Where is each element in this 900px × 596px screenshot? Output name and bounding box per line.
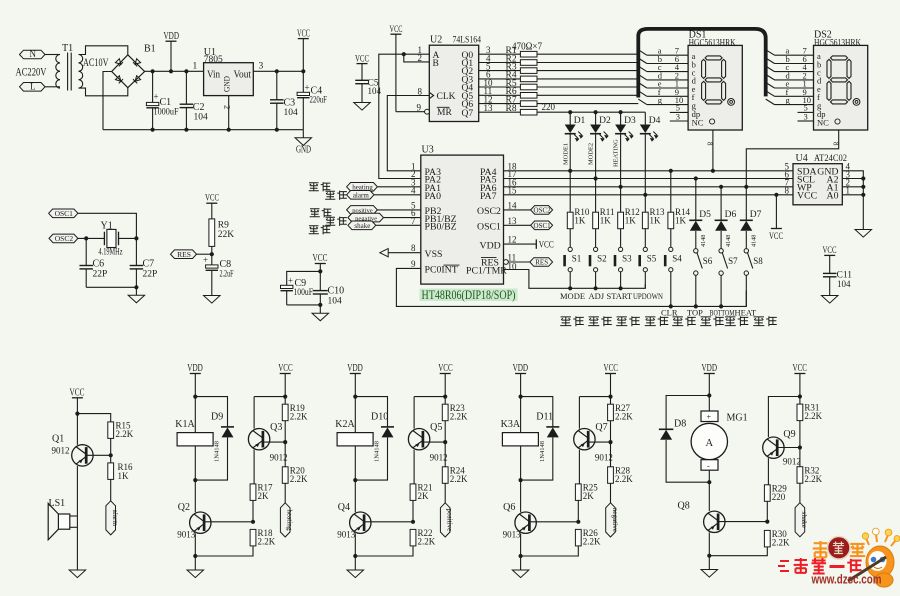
- DS2 segment wire f: [766, 91, 775, 97]
- resistor R18 2.2K: [250, 529, 256, 546]
- svg-text:2.2K: 2.2K: [450, 474, 468, 484]
- svg-text:1K: 1K: [574, 216, 586, 226]
- switch S7: [719, 249, 723, 253]
- wire VCC rail to Q5: [414, 396, 445, 398]
- svg-text:VCC: VCC: [438, 363, 453, 374]
- node dot VCC Q9: [798, 394, 802, 398]
- wire R6 to DS1 bus: [537, 94, 638, 96]
- svg-text:negative: negative: [611, 508, 619, 532]
- wire RES pin to tag: [508, 261, 530, 263]
- svg-text:2.2K: 2.2K: [450, 412, 468, 422]
- transistor Q2 9013: [194, 480, 196, 512]
- svg-text:1K: 1K: [675, 216, 687, 226]
- svg-text:1N4148: 1N4148: [214, 441, 221, 462]
- svg-text:4148: 4148: [700, 235, 707, 247]
- wire bottom rail K3A: [521, 546, 579, 556]
- wire VDD to D10: [355, 397, 387, 427]
- ground symbol K3A: [512, 570, 529, 578]
- ground symbol crystal: [135, 287, 137, 295]
- net tag OSC2 (crystal): [49, 234, 78, 243]
- svg-text:+: +: [154, 92, 159, 102]
- transistor Q6 9013: [520, 480, 522, 512]
- svg-text:VDD: VDD: [164, 31, 180, 42]
- ground symbol Q1: [69, 570, 86, 578]
- node dot R12 top: [619, 185, 623, 189]
- node dot rail C2: [184, 128, 188, 132]
- svg-text:OSC2: OSC2: [477, 206, 501, 217]
- node dot VCC Q5: [443, 395, 447, 399]
- svg-text:2.2K: 2.2K: [583, 537, 601, 547]
- svg-text:S3: S3: [622, 254, 632, 264]
- svg-text:1: 1: [193, 62, 198, 72]
- LED D4: [644, 112, 646, 124]
- capacitor C9 100uF: [281, 285, 293, 288]
- key rail2 node dots: [669, 304, 673, 308]
- svg-text:Q7: Q7: [595, 422, 607, 433]
- resistor R29 220: [767, 458, 769, 485]
- diode D10 1N4148: [381, 426, 394, 428]
- svg-text:HGC5613HRK: HGC5613HRK: [814, 38, 861, 48]
- svg-text:2.2K: 2.2K: [772, 538, 790, 548]
- svg-text:220: 220: [772, 492, 786, 502]
- svg-text:100uF: 100uF: [294, 288, 314, 298]
- svg-text:3: 3: [804, 111, 808, 121]
- node dot motor bottom: [707, 480, 711, 484]
- svg-text:MODE1: MODE1: [563, 143, 570, 165]
- node dot relay bottom K3A: [519, 478, 523, 482]
- DS2 segment wire d: [766, 74, 775, 80]
- svg-text:VCC: VCC: [539, 241, 554, 251]
- svg-text:VCC: VCC: [70, 388, 85, 399]
- svg-text:104: 104: [328, 297, 343, 307]
- svg-text:BOTTOM: BOTTOM: [710, 308, 735, 318]
- wire DC rail bridge to U1: [145, 70, 204, 72]
- node dot Q8 emitter rail: [707, 554, 711, 558]
- resistor R24 2.2K: [444, 442, 446, 467]
- resistor R2: [520, 60, 537, 66]
- resistor R4: [520, 76, 537, 82]
- ground symbol below C5: [354, 103, 371, 111]
- svg-text:CLK: CLK: [437, 92, 456, 102]
- node dot D5 top: [694, 176, 698, 180]
- svg-text:S6: S6: [703, 256, 713, 266]
- node dot crystal gnd: [134, 285, 138, 289]
- node dot A0: [861, 193, 865, 197]
- motor MG1 terminal +: [701, 411, 718, 422]
- transformer T1 core: [67, 53, 69, 91]
- svg-text:MR: MR: [437, 108, 452, 118]
- node dot VDD K2A: [353, 395, 357, 399]
- svg-text:9013: 9013: [177, 530, 196, 540]
- wire OSC1 pin to tag: [504, 224, 531, 226]
- wire VCC to MR pin 9: [396, 111, 426, 113]
- node dot Q2 base: [251, 520, 255, 524]
- wire C9/C10 bottom: [287, 304, 321, 306]
- wire VDD pin to VCC: [504, 243, 537, 245]
- svg-text:S5: S5: [647, 254, 657, 264]
- svg-text:8: 8: [785, 186, 790, 196]
- node dot R10 top: [568, 169, 572, 173]
- svg-text:9012: 9012: [52, 446, 70, 456]
- diode D7 1N4148: [745, 187, 747, 221]
- svg-text:S8: S8: [753, 256, 763, 266]
- bridge diode top-right: [133, 59, 141, 67]
- svg-text:Vin: Vin: [207, 70, 220, 81]
- wire OSC2 pin to tag: [504, 209, 531, 211]
- svg-text:AC220V: AC220V: [16, 67, 48, 79]
- wire Q4 to R5: [479, 86, 521, 88]
- node dot relay bottom K2A: [353, 478, 357, 482]
- wire VCC rail to Q3: [254, 396, 285, 398]
- transistor Q8: [704, 511, 725, 532]
- svg-text:2.2K: 2.2K: [258, 537, 276, 547]
- svg-text:RES: RES: [535, 259, 548, 267]
- node dot Q1 VCC: [75, 412, 79, 416]
- svg-text:OSC1: OSC1: [534, 222, 552, 230]
- svg-text:2.2K: 2.2K: [418, 537, 436, 547]
- svg-text:+: +: [288, 276, 293, 286]
- watermark text zhao-xin-pian (orange): [813, 541, 829, 558]
- svg-text:1K: 1K: [600, 216, 612, 226]
- resistor R10 1K: [569, 171, 571, 212]
- resistor R6: [520, 93, 537, 99]
- DS2 segment wire b: [766, 58, 775, 64]
- svg-text:HT48R06(DIP18/SOP): HT48R06(DIP18/SOP): [422, 288, 516, 302]
- svg-text:VCC: VCC: [823, 246, 837, 256]
- svg-text:R8: R8: [506, 104, 517, 114]
- resistor R8: [520, 109, 537, 115]
- transistor Q7 9012: [578, 397, 580, 429]
- svg-text:C6: C6: [93, 259, 105, 270]
- ground rail bottom: [103, 129, 303, 131]
- svg-text:D8: D8: [674, 419, 686, 430]
- svg-text:VCC: VCC: [205, 194, 219, 204]
- svg-text:AC10V: AC10V: [83, 57, 109, 69]
- eeprom U4 AT24C02: [793, 164, 842, 205]
- svg-text:VSS: VSS: [425, 249, 443, 260]
- resistor R3: [520, 68, 537, 74]
- wire Q9 base: [777, 447, 800, 449]
- switch S5 pushbutton: [643, 247, 647, 251]
- net tag positive: [347, 206, 378, 215]
- resistor R19 2.2K: [284, 397, 286, 405]
- wire Q5 base: [423, 441, 445, 443]
- net tag RES (U3): [530, 258, 553, 267]
- DS2 dp stub pin 5: [798, 111, 814, 113]
- svg-text:positive: positive: [446, 509, 454, 532]
- capacitor C6 22P: [85, 238, 87, 265]
- svg-text:Q8: Q8: [678, 501, 690, 512]
- DS1 common cathode wire to PA4 row: [712, 130, 714, 171]
- node dot emitter rail K2A: [353, 554, 357, 558]
- svg-text:Q4: Q4: [338, 502, 350, 513]
- svg-text:LS1: LS1: [49, 498, 66, 509]
- wire VDD to D11: [521, 397, 553, 427]
- svg-text:A: A: [706, 438, 714, 449]
- net tag positive (vertical): [440, 503, 450, 537]
- svg-text:PB0/BZ: PB0/BZ: [425, 222, 457, 233]
- wire U2 CLK to PA3: [387, 96, 429, 171]
- net tag alarm: [347, 191, 374, 200]
- display bus (thick) DS1-DS2: [638, 29, 765, 98]
- net tag heating: [347, 183, 378, 192]
- svg-text:ADJ: ADJ: [589, 291, 605, 301]
- svg-text:D6: D6: [725, 210, 737, 220]
- resistor R7: [520, 101, 537, 107]
- svg-text:OSC2: OSC2: [534, 207, 552, 215]
- resistor R25 2K: [575, 484, 581, 501]
- label shake (Chinese): [309, 226, 319, 234]
- svg-text:U2: U2: [430, 35, 442, 46]
- shift register U2 74LS164: [429, 45, 478, 121]
- wire Q6 base: [529, 521, 578, 523]
- wire R7 to DS1 bus: [537, 103, 638, 105]
- svg-text:Q7: Q7: [462, 109, 474, 119]
- wire Q3 to R4: [479, 78, 521, 80]
- resistor R15 2.2K: [108, 422, 114, 439]
- resistor R22 2.2K: [410, 529, 416, 546]
- svg-text:2K: 2K: [418, 491, 430, 501]
- wire Q2 base: [204, 521, 253, 523]
- transformer T1 secondary winding: [79, 55, 83, 89]
- svg-text:MODE: MODE: [560, 291, 585, 301]
- wire positive tag to PB2: [377, 209, 420, 211]
- power symbol VCC (U4): [771, 228, 782, 230]
- svg-text:8: 8: [411, 243, 416, 253]
- ground symbol K2A: [347, 570, 364, 578]
- svg-text:MG1: MG1: [727, 413, 748, 424]
- capacitor C2 104: [185, 71, 187, 104]
- svg-text:22K: 22K: [218, 230, 235, 240]
- resistor R31 2.2K: [797, 404, 803, 421]
- svg-text:220uF: 220uF: [310, 96, 328, 106]
- svg-text:2.2K: 2.2K: [804, 474, 822, 484]
- wire VDD to D8: [666, 396, 709, 430]
- svg-text:B1: B1: [144, 44, 156, 55]
- svg-text:13: 13: [484, 103, 494, 113]
- wire PA6 row to U4 WP: [504, 186, 794, 188]
- svg-text:104: 104: [837, 279, 851, 289]
- label alarm (Chinese): [325, 191, 335, 199]
- svg-text:K1A: K1A: [175, 419, 195, 430]
- svg-text:C1: C1: [160, 97, 172, 108]
- svg-text:OSC1: OSC1: [477, 222, 501, 233]
- svg-text:N: N: [30, 49, 37, 59]
- wire negative tag to PB1: [384, 217, 421, 219]
- svg-text:Q9: Q9: [783, 429, 795, 440]
- svg-text:2: 2: [223, 105, 233, 109]
- node dot C1 top: [151, 69, 155, 73]
- svg-text:VCC: VCC: [297, 29, 310, 40]
- bridge diode bottom-left: [115, 76, 123, 84]
- svg-text:8: 8: [418, 86, 423, 96]
- resistor R11 1K: [595, 179, 597, 213]
- wire Q1 base: [86, 454, 111, 456]
- svg-text:+: +: [203, 255, 208, 265]
- svg-text:1N4148: 1N4148: [539, 441, 546, 462]
- diode D9 1N4148: [221, 426, 234, 428]
- svg-text:2: 2: [418, 53, 423, 63]
- net tag OSC2 (U3): [531, 206, 553, 215]
- svg-text:shake: shake: [800, 512, 808, 528]
- svg-text:3: 3: [676, 111, 680, 121]
- node dot Q4 base: [411, 520, 415, 524]
- svg-text:8: 8: [832, 142, 840, 146]
- wire R4 to DS1 bus: [537, 78, 638, 80]
- svg-text:1000uF: 1000uF: [154, 108, 179, 118]
- resistor R21 2K: [410, 484, 416, 501]
- switch S2 pushbutton: [594, 247, 598, 251]
- wire RES tag to R9/C8: [197, 253, 212, 255]
- net tag alarm (vertical): [106, 501, 116, 535]
- svg-text:470Ω×7: 470Ω×7: [512, 42, 542, 53]
- capacitor C4 220uF: [302, 71, 304, 92]
- switch S3 pushbutton: [619, 247, 623, 251]
- node dot A1: [861, 185, 865, 189]
- capacitor C8 2.2uF: [211, 254, 213, 265]
- node dot Q3 base: [283, 440, 287, 444]
- svg-text:RES: RES: [481, 258, 499, 269]
- transistor Q9 9012: [768, 397, 800, 438]
- svg-text:PA7: PA7: [480, 191, 497, 202]
- DS1 segment wire a: [638, 50, 647, 56]
- svg-text:A0: A0: [827, 191, 839, 202]
- diode D11 1N4148: [546, 426, 559, 428]
- wire PA4 row to U4 SDA: [504, 170, 794, 172]
- label Chinese key captions: [560, 317, 571, 326]
- wire Q6 to R7: [479, 103, 521, 105]
- node dot Q8 base: [765, 520, 769, 524]
- label heating (Chinese): [309, 183, 319, 191]
- wire Q3 base: [263, 441, 285, 443]
- connector L (AC input live): [20, 83, 46, 92]
- wire motor to Q8: [708, 470, 710, 511]
- svg-text:START: START: [607, 291, 634, 301]
- node dot emitter rail K3A: [519, 554, 523, 558]
- LED D1: [569, 112, 571, 124]
- node dot D2 anode: [594, 110, 598, 114]
- node dot RES junction: [210, 252, 214, 256]
- display DS2 box: [814, 45, 868, 130]
- wire U1 Vout to VCC: [253, 70, 303, 72]
- wire N to transformer: [45, 54, 60, 56]
- bridge diode top-left: [115, 59, 123, 67]
- wire Q8 base: [718, 521, 767, 523]
- node dot A2: [861, 176, 865, 180]
- node dot C9/C10 top: [318, 269, 322, 273]
- svg-text:CLR: CLR: [661, 308, 678, 318]
- node dot rail U1 GND: [227, 128, 231, 132]
- svg-text:2.2uF: 2.2uF: [220, 270, 234, 280]
- svg-text:D11: D11: [536, 412, 553, 423]
- svg-text:AT24C02: AT24C02: [814, 154, 847, 164]
- svg-text:S7: S7: [728, 256, 738, 266]
- svg-text:2K: 2K: [583, 491, 595, 501]
- node dot VCC column: [301, 69, 305, 73]
- transistor Q3 9012: [253, 397, 255, 429]
- svg-text:C10: C10: [328, 286, 345, 297]
- transistor Q5 9012: [413, 397, 415, 429]
- svg-text:2.2K: 2.2K: [116, 429, 134, 439]
- svg-text:MODE2: MODE2: [588, 143, 595, 165]
- watermark weiku-yixia (red): [778, 561, 789, 571]
- svg-text:VCC: VCC: [390, 25, 403, 35]
- svg-text:U3: U3: [422, 145, 434, 156]
- wire U1 GND pin to rail: [228, 96, 230, 130]
- VSS arrow symbol: [380, 249, 388, 257]
- connector N (AC input neutral): [20, 50, 46, 59]
- svg-text:OSC1: OSC1: [55, 209, 74, 218]
- svg-text:4.19MHz: 4.19MHz: [99, 248, 123, 258]
- DS1 NC stub pin 3: [670, 120, 688, 122]
- svg-text:1K: 1K: [650, 216, 662, 226]
- svg-text:4148: 4148: [750, 235, 757, 247]
- label positive (Chinese): [310, 209, 320, 217]
- svg-text:VCC: VCC: [793, 363, 808, 374]
- svg-text:+: +: [305, 83, 310, 93]
- wire VCC to R15: [77, 414, 110, 422]
- svg-text:OSC2: OSC2: [55, 234, 74, 243]
- svg-text:C7: C7: [143, 259, 155, 270]
- net tag shake (vertical): [795, 503, 805, 537]
- svg-text:14: 14: [508, 200, 518, 210]
- svg-text:104: 104: [194, 113, 209, 123]
- resistor R32 2.2K: [799, 448, 801, 467]
- svg-text:alarm: alarm: [111, 510, 119, 527]
- watermark mascot: [848, 528, 900, 587]
- wire A to B jumper: [404, 54, 430, 62]
- wire R1 to DS1 bus: [537, 53, 638, 55]
- net tag shake: [348, 221, 376, 230]
- svg-text:VCC: VCC: [313, 253, 328, 264]
- node dot R13 top: [643, 193, 647, 197]
- node dot Q7 base: [608, 440, 612, 444]
- node dot DS1 common: [711, 169, 715, 173]
- svg-text:S4: S4: [672, 254, 682, 264]
- wire secondary top to bridge: [79, 46, 128, 55]
- svg-text:Q3: Q3: [270, 422, 282, 433]
- svg-text:HEATING: HEATING: [613, 139, 620, 167]
- svg-text:T1: T1: [62, 43, 73, 54]
- node dot relay bottom K1A: [193, 478, 197, 482]
- svg-text:+: +: [707, 413, 712, 422]
- wire PC1/TMR to key rail1: [504, 270, 646, 289]
- svg-text:alarm: alarm: [353, 192, 369, 200]
- wire shake tag to PB0: [376, 224, 421, 226]
- DS1 dp stub pin 5: [670, 111, 688, 113]
- resistor R27 2.2K: [610, 397, 612, 405]
- capacitor C11 104: [823, 272, 837, 274]
- wire OSC2 to crystal left node: [78, 237, 105, 239]
- node dot VDD MG1: [707, 393, 711, 397]
- svg-text:GND: GND: [222, 76, 232, 92]
- LED D2: [595, 112, 597, 124]
- label negative (Chinese): [325, 217, 335, 225]
- svg-text:2.2K: 2.2K: [290, 474, 308, 484]
- svg-text:VDD: VDD: [513, 363, 529, 374]
- svg-text:22P: 22P: [93, 270, 108, 280]
- DS2 NC stub pin 3: [798, 120, 814, 122]
- svg-text:UPDOWN: UPDOWN: [633, 291, 663, 301]
- svg-text:Vout: Vout: [234, 70, 252, 81]
- wire L to transformer: [45, 86, 60, 88]
- svg-text:C2: C2: [193, 102, 205, 113]
- node dot Q1 base junction: [109, 453, 113, 457]
- node dot crystal right: [134, 236, 138, 240]
- svg-text:VCC: VCC: [604, 363, 619, 374]
- svg-text:4148: 4148: [725, 235, 732, 247]
- svg-text:S2: S2: [597, 254, 607, 264]
